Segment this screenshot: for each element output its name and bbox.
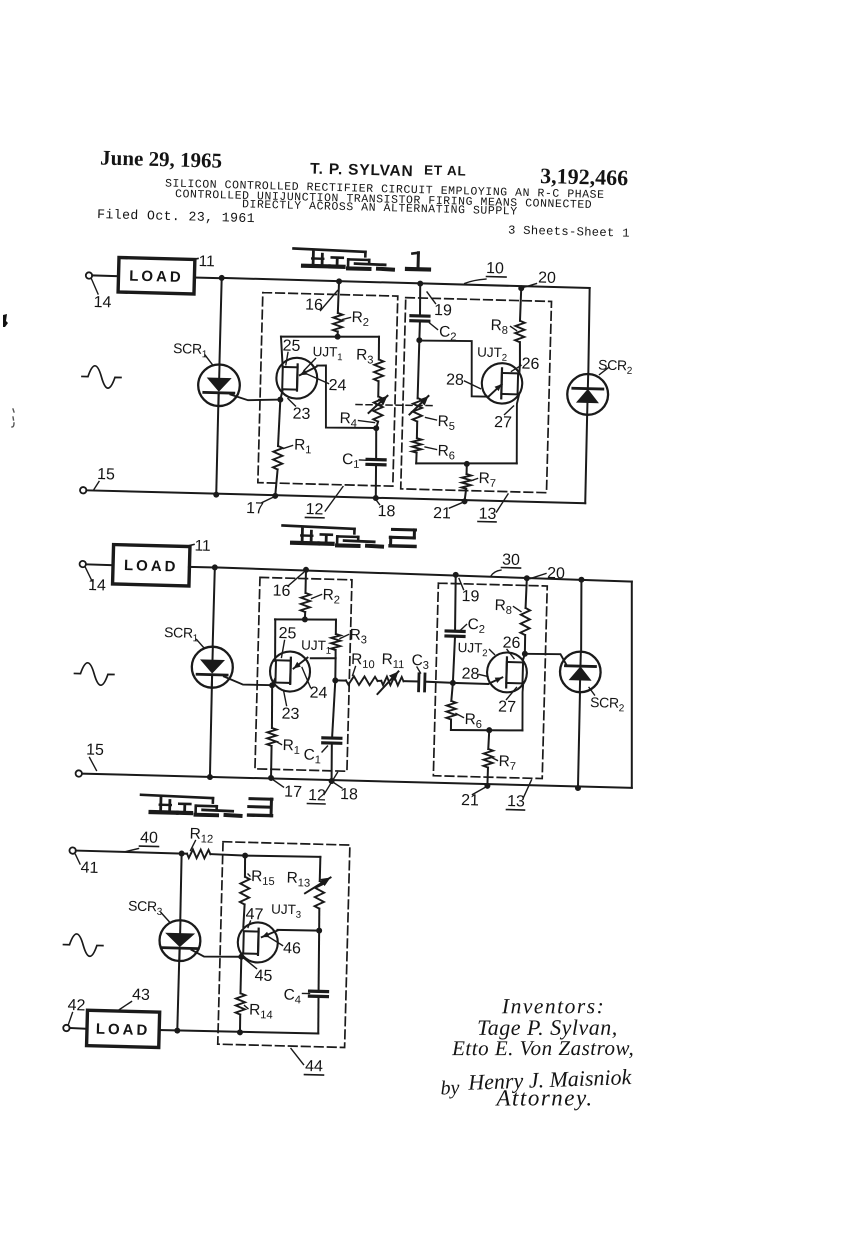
SCR SCR3 (Fig.3) xyxy=(159,920,201,962)
wire: bus to UJT1 B2 (Fig.2) xyxy=(274,619,276,660)
wire: SCR3 cathode drop (Fig.3) xyxy=(177,948,179,1030)
label SCR1 (Fig.1) xyxy=(173,340,213,364)
label R15 (Fig.3) xyxy=(248,868,280,888)
label R8 (Fig.2) xyxy=(494,597,521,617)
svg-text:11: 11 xyxy=(198,253,215,270)
potentiometer R4 (Fig.1) xyxy=(368,395,387,421)
wire: right edge drop (Fig.2) xyxy=(626,582,637,788)
wire: C3 to box13 (Fig.2) xyxy=(425,682,453,683)
header: patent number xyxy=(540,163,629,190)
wire: C2 to node P (Fig.2) xyxy=(453,637,455,682)
label 23 (Fig.1) xyxy=(287,399,311,423)
label 11 (Fig.1) xyxy=(193,253,215,271)
junction: SCR2 top node (Fig.2) xyxy=(578,577,584,583)
figure title FIG.3 xyxy=(141,795,272,817)
svg-text:R3: R3 xyxy=(349,626,371,646)
SCR SCR1 (Fig.1) xyxy=(198,364,241,407)
header: filing date xyxy=(97,207,255,226)
label SCR2 (Fig.1) xyxy=(598,356,636,376)
label 12 (Fig.1) xyxy=(305,486,343,519)
resistor R2 (Fig.2) xyxy=(301,593,311,612)
svg-text:18: 18 xyxy=(377,503,395,520)
junction: SCR2 at bottom bus (Fig.2) xyxy=(575,785,581,791)
margin mark xyxy=(3,314,9,327)
label UJT2 (Fig.1) xyxy=(477,345,511,364)
junction: SCR3 at bottom bus (Fig.3) xyxy=(174,1028,180,1034)
wire: R5 to R6 (Fig.1) xyxy=(416,421,419,438)
resistor R8 (Fig.2) xyxy=(520,608,530,635)
label 27 (Fig.2) xyxy=(498,687,517,716)
junction: SCR1 at bottom bus (Fig.2) xyxy=(207,774,213,780)
label 30 (Fig.2) xyxy=(491,551,521,576)
resistor R7 (Fig.1) xyxy=(462,474,472,489)
wire: SCR1 cathode drop (Fig.2) xyxy=(209,674,212,777)
svg-text:12: 12 xyxy=(308,787,326,804)
svg-text:25: 25 xyxy=(278,625,296,642)
wire: SCR3 gate (Fig.3) xyxy=(191,950,241,958)
wire: R8 bottom segment (Fig.1) xyxy=(519,342,520,364)
wire: R3 drop (Fig.2) xyxy=(335,620,338,634)
svg-text:LOAD: LOAD xyxy=(96,1021,151,1039)
wire: UJT2 B2 to R8 (Fig.1) xyxy=(518,364,521,373)
svg-text:15: 15 xyxy=(97,466,115,483)
header: title line 1 xyxy=(165,177,605,202)
terminal 15 (Fig.2) xyxy=(75,770,82,777)
svg-text:19: 19 xyxy=(461,588,479,605)
wire: R14 to bottom bus (Fig.3) xyxy=(239,1015,242,1033)
label 17 (Fig.1) xyxy=(246,497,273,518)
wire: node F to UJT2 emitter (Fig.1) xyxy=(418,340,490,397)
resistor R2 (Fig.1) xyxy=(333,313,343,332)
svg-text:R2: R2 xyxy=(322,587,344,607)
header: sheet number xyxy=(508,223,630,240)
resistor R8 (Fig.1) xyxy=(515,321,525,343)
resistor R1 (Fig.2) xyxy=(267,728,277,746)
load LOAD (Fig.2) xyxy=(113,545,190,586)
svg-text:by: by xyxy=(440,1077,460,1100)
capacitor C3 (Fig.2) xyxy=(419,674,425,691)
svg-text:R2: R2 xyxy=(351,309,373,329)
label 24 (Fig.1) xyxy=(305,374,347,395)
svg-text:C4: C4 xyxy=(283,986,305,1006)
svg-text:R1: R1 xyxy=(294,436,316,456)
label 42 (Fig.3) xyxy=(67,997,86,1024)
resistor R6 (Fig.1) xyxy=(412,438,422,453)
label R7 (Fig.1) xyxy=(471,470,500,490)
wire: C1 to bottom bus (Fig.2) xyxy=(331,744,333,781)
junction: gate node (Fig.3) xyxy=(238,954,244,960)
wire: UJT1 emitter line (Fig.2) xyxy=(311,658,336,659)
junction node A (Fig.2) xyxy=(212,564,218,570)
label 19 (Fig.2) xyxy=(458,579,480,606)
svg-text:UJT3: UJT3 xyxy=(271,902,305,921)
label R4 (Fig.1) xyxy=(339,410,374,430)
junction 18 (Fig.2) xyxy=(328,778,334,784)
svg-text:SCR1: SCR1 xyxy=(164,624,202,644)
capacitor C1 (Fig.1) xyxy=(367,459,385,464)
label 41 (Fig.3) xyxy=(75,854,99,877)
svg-text:Henry J. Maisniok: Henry J. Maisniok xyxy=(467,1064,633,1095)
svg-text:R13: R13 xyxy=(286,870,314,890)
wire: LOAD to node A (Fig.1) xyxy=(194,276,222,279)
junction 18 on bottom bus (Fig.1) xyxy=(373,495,379,501)
header: title line 2 xyxy=(175,188,592,212)
svg-text:27: 27 xyxy=(498,698,516,715)
label 44 (Fig.3) xyxy=(290,1048,324,1075)
label R12 (Fig.3) xyxy=(189,826,218,852)
svg-text:47: 47 xyxy=(245,906,263,923)
wire: SCR1 cathode to bottom bus (Fig.1) xyxy=(216,393,219,495)
svg-text:T. P. SYLVAN: T. P. SYLVAN xyxy=(310,160,414,180)
junction node 20 (Fig.2) xyxy=(524,575,530,581)
wire: UJT1 emitter path (Fig.1) xyxy=(316,365,378,429)
label R1 (Fig.2) xyxy=(276,737,305,757)
junction node E (Fig.2) xyxy=(332,677,338,683)
label C4 (Fig.3) xyxy=(283,986,309,1006)
label 15 (Fig.2) xyxy=(86,742,105,771)
wire: inner bottom bus box13 (Fig.1) xyxy=(416,461,517,466)
wire: terminal 14 to LOAD (Fig.1) xyxy=(92,274,119,277)
label 28 (Fig.2) xyxy=(461,666,488,684)
wire: SCR1 gate (Fig.2) xyxy=(224,676,272,685)
wire: node19 to C2 (Fig.2) xyxy=(454,575,456,631)
label SCR2 (Fig.2) xyxy=(588,687,628,714)
svg-text:June 29, 1965: June 29, 1965 xyxy=(100,145,223,172)
wire: UJT1 B1 to node 23 (Fig.1) xyxy=(280,390,282,400)
label 43 (Fig.3) xyxy=(120,986,151,1010)
label 17 (Fig.2) xyxy=(273,780,302,801)
resistor R6 (Fig.2) xyxy=(446,701,456,720)
label 16 (Fig.1) xyxy=(305,290,338,315)
label R3 (Fig.2) xyxy=(340,626,372,646)
pin: UJT2 emitter arrow (Fig.2) xyxy=(488,677,502,684)
resistor R10 (Fig.2) xyxy=(346,676,378,685)
svg-text:27: 27 xyxy=(494,414,512,431)
wire: inner bus to R3 (Fig.1) xyxy=(377,337,380,360)
svg-text:LOAD: LOAD xyxy=(129,268,184,286)
label R6 (Fig.1) xyxy=(425,442,460,462)
wire: R13 stub (Fig.3) xyxy=(319,857,322,881)
wire: bottom bus Fig.1 xyxy=(86,490,585,503)
label R7 (Fig.2) xyxy=(492,753,520,773)
wire: R7 stub (Fig.2) xyxy=(487,730,490,749)
figure title FIG.2 xyxy=(282,525,415,547)
junction: gate node at R1 top (Fig.1) xyxy=(277,396,283,402)
label R8 (Fig.1) xyxy=(490,317,517,337)
wire: UJT2 B2 to node 26 (Fig.2) xyxy=(523,654,525,660)
wire: node to R1 (Fig.2) xyxy=(271,685,273,728)
load LOAD (Fig.3) xyxy=(87,1010,160,1047)
label 25 (Fig.1) xyxy=(282,338,301,366)
label R5 (Fig.1) xyxy=(425,413,459,433)
wire: LOAD to bottom bus (Fig.3) xyxy=(159,1029,319,1034)
signature block xyxy=(439,989,637,1115)
wire: UJT1 B1 drop (Fig.2) xyxy=(272,679,275,685)
svg-text:SCR1: SCR1 xyxy=(173,340,211,360)
terminal 42 (Fig.3) xyxy=(63,1025,70,1032)
svg-text:20: 20 xyxy=(547,565,565,582)
label 13 (Fig.2) xyxy=(506,779,531,810)
wire: R7 to bottom bus (Fig.2) xyxy=(486,768,489,786)
wire: R7 top (Fig.1) xyxy=(466,464,468,474)
junction: gate node (Fig.2) xyxy=(269,682,275,688)
label C1 (Fig.1) xyxy=(342,451,367,471)
label UJT1 (Fig.1) xyxy=(304,344,347,372)
junction node 19 (Fig.2) xyxy=(453,572,459,578)
junction 17 on bottom bus (Fig.1) xyxy=(272,493,278,499)
label R3 (Fig.1) xyxy=(356,347,378,367)
wire: top bus Fig.2 xyxy=(215,567,632,581)
wire: R1 to bottom bus (Fig.2) xyxy=(271,746,272,778)
terminal 15 (Fig.1) xyxy=(80,487,87,494)
junction node 16 (Fig.1) xyxy=(336,278,342,284)
label R11 (Fig.2) xyxy=(381,651,409,671)
wire: C2 to node F (Fig.1) xyxy=(418,322,421,340)
wire: R8 top to top bus (Fig.1) xyxy=(520,288,521,321)
resistor R15 (Fig.3) xyxy=(240,877,250,905)
svg-text:21: 21 xyxy=(433,505,451,522)
dashed enclosure 13 (Fig.1) xyxy=(401,298,552,493)
wire: emitter node drop (Fig.2) xyxy=(334,658,337,680)
svg-text:SCR3: SCR3 xyxy=(128,897,166,917)
label 18 (Fig.2) xyxy=(333,782,358,803)
label C1 (Fig.2) xyxy=(303,745,327,766)
svg-text:41: 41 xyxy=(80,860,98,877)
wire: node P to UJT2 emitter (Fig.2) xyxy=(453,683,488,684)
svg-text:25: 25 xyxy=(282,338,300,355)
junction: R2 at inner bus (Fig.1) xyxy=(335,334,341,340)
header: title line 3 xyxy=(242,198,518,218)
wire: R6 to inner bus (Fig.1) xyxy=(415,453,417,464)
label UJT2 (Fig.2) xyxy=(457,640,495,659)
label 11 (Fig.2) xyxy=(189,537,211,555)
label 21 (Fig.2) xyxy=(461,787,485,810)
svg-text:ET AL: ET AL xyxy=(424,162,467,178)
resistor R7 (Fig.2) xyxy=(483,749,493,768)
header: inventor names xyxy=(310,159,467,181)
wire: UJT1 inner top bus (Fig.1) xyxy=(281,334,379,339)
margin mark 2 xyxy=(12,409,15,427)
label 26 (Fig.2) xyxy=(502,634,521,658)
svg-text:R7: R7 xyxy=(498,753,520,773)
unijunction transistor UJT3 (Fig.3) xyxy=(237,922,278,963)
wire: node19 to C2 (Fig.1) xyxy=(419,284,420,315)
label 12 (Fig.2) xyxy=(307,772,337,805)
junction node F C2 bottom (Fig.1) xyxy=(416,337,422,343)
svg-text:C2: C2 xyxy=(467,616,489,636)
wire: R10-R11 (Fig.2) xyxy=(378,680,382,682)
label C2 (Fig.1) xyxy=(429,323,461,344)
svg-text:SCR2: SCR2 xyxy=(590,694,628,714)
wire: LOAD to node A (Fig.2) xyxy=(189,566,215,569)
wire: SCR2 cathode drop (Fig.2) xyxy=(577,692,580,788)
label 40 (Fig.3) xyxy=(126,829,159,852)
junction node D (Fig.3) xyxy=(316,927,322,933)
unijunction transistor UJT1 (Fig.1) xyxy=(276,357,318,399)
resistor R3 (Fig.2) xyxy=(331,634,341,650)
svg-text:24: 24 xyxy=(309,685,327,702)
label R14 (Fig.3) xyxy=(244,1001,277,1021)
label UJT3 (Fig.3) xyxy=(271,902,305,921)
dashed enclosure 13 (Fig.2) xyxy=(433,583,547,778)
label SCR1 (Fig.2) xyxy=(164,624,205,648)
label 28 (Fig.1) xyxy=(446,372,481,390)
svg-text:R7: R7 xyxy=(478,470,500,490)
wire: node D to C4 (Fig.3) xyxy=(318,931,321,991)
svg-text:3,192,466: 3,192,466 xyxy=(540,163,629,190)
label 15 (Fig.1) xyxy=(94,466,115,490)
junction node A (Fig.3) xyxy=(179,850,185,856)
wire: node16 to R2 (Fig.2) xyxy=(304,570,307,593)
label 47 (Fig.3) xyxy=(245,906,263,928)
junction: R7 node (Fig.2) xyxy=(486,727,492,733)
wire: node P to R6 (Fig.2) xyxy=(451,683,453,701)
label 24 (Fig.2) xyxy=(301,668,328,702)
label R2 (Fig.2) xyxy=(311,586,344,606)
wire: top bus right drop to SCR2 (Fig.1) xyxy=(587,288,590,374)
pin: UJT1 emitter arrow (Fig.2) xyxy=(294,657,308,669)
label 13 (Fig.1) xyxy=(478,493,508,523)
junction: R14 at bottom bus (Fig.3) xyxy=(237,1029,243,1035)
junction: R8/gate node (Fig.2) xyxy=(522,651,528,657)
unijunction transistor UJT2 (Fig.1) xyxy=(481,363,522,404)
unijunction transistor UJT2 (Fig.2) xyxy=(487,652,528,693)
svg-text:R11: R11 xyxy=(381,651,409,671)
wire: UJT2 B1 drop (Fig.2) xyxy=(522,686,524,731)
svg-text:42: 42 xyxy=(67,997,85,1014)
junction node 19 (Fig.1) xyxy=(417,281,423,287)
wire: R2 to inner bus (Fig.1) xyxy=(337,331,339,336)
figure title FIG.1 xyxy=(293,248,429,270)
dashed enclosure 12 (Fig.2) xyxy=(255,577,352,771)
svg-text:40: 40 xyxy=(140,829,158,846)
svg-text:17: 17 xyxy=(284,784,302,801)
svg-text:R14: R14 xyxy=(249,1001,277,1021)
wire: inner top bus (Fig.2) xyxy=(275,618,336,621)
svg-text:R5: R5 xyxy=(437,413,459,433)
wire: inner bottom bus (Fig.2) xyxy=(451,729,523,732)
svg-text:28: 28 xyxy=(446,372,464,389)
svg-text:28: 28 xyxy=(461,666,479,683)
wire: node E to C1 (Fig.2) xyxy=(332,680,335,737)
resistor R1 (Fig.1) xyxy=(273,446,283,470)
capacitor C2 (Fig.2) xyxy=(446,631,464,636)
label UJT1 (Fig.2) xyxy=(301,638,335,657)
potentiometer R13 (Fig.3) xyxy=(305,877,331,909)
svg-text:11: 11 xyxy=(194,537,211,554)
pin: UJT3 emitter arrow (Fig.3) xyxy=(262,930,278,938)
svg-text:15: 15 xyxy=(86,742,104,759)
svg-text:R15: R15 xyxy=(251,868,279,888)
wire: node to R1 (Fig.1) xyxy=(278,400,280,447)
svg-text:23: 23 xyxy=(281,706,299,723)
junction 17 (Fig.2) xyxy=(268,775,274,781)
svg-text:14: 14 xyxy=(93,294,111,311)
AC source sine (Fig.2) xyxy=(74,662,114,685)
svg-text:R6: R6 xyxy=(464,711,486,731)
wire: R13 to node D (Fig.3) xyxy=(318,909,321,931)
resistor R3 (Fig.1) xyxy=(374,359,384,381)
junction 21 (Fig.2) xyxy=(484,783,490,789)
dashed enclosure 44 (Fig.3) xyxy=(218,842,350,1048)
label 14 (Fig.2) xyxy=(85,568,107,595)
svg-text:Filed Oct. 23, 1961: Filed Oct. 23, 1961 xyxy=(97,207,255,226)
wire: SCR1 anode drop (Fig.1) xyxy=(219,278,221,365)
wire: terminal 41 to node A (Fig.3) xyxy=(76,851,182,854)
resistor R14 (Fig.3) xyxy=(236,993,246,1014)
svg-text:23: 23 xyxy=(292,406,310,423)
svg-text:19: 19 xyxy=(434,302,452,319)
wire: SCR3 anode drop (Fig.3) xyxy=(180,854,182,921)
label 21 (Fig.1) xyxy=(433,502,462,523)
SCR SCR2 (Fig.1) xyxy=(567,373,609,415)
label 10 (Fig.1) xyxy=(465,259,507,284)
wire: gate line to SCR2 (Fig.2) xyxy=(525,653,568,666)
pin: UJT1 emitter arrow (Fig.1) xyxy=(300,366,317,375)
svg-text:45: 45 xyxy=(254,968,272,985)
junction: R4/C1/emitter node 18 top (Fig.1) xyxy=(373,425,379,431)
junction node P (Fig.2) xyxy=(450,680,456,686)
wire: terminal to LOAD (Fig.2) xyxy=(86,563,114,566)
svg-text:18: 18 xyxy=(340,786,358,803)
svg-text:LOAD: LOAD xyxy=(124,557,179,575)
svg-text:SCR2: SCR2 xyxy=(598,356,636,376)
wire: gate node to R14 (Fig.3) xyxy=(240,957,241,994)
label 19 (Fig.1) xyxy=(426,292,452,319)
wire: C1 to bottom bus (Fig.1) xyxy=(375,466,376,498)
label 14 (Fig.1) xyxy=(91,279,112,311)
wire: UJT2 B1 drop (Fig.1) xyxy=(515,394,519,464)
mechanical link R4-R5 dashed (Fig.1) xyxy=(356,404,432,407)
potentiometer R5 (Fig.1) xyxy=(409,395,428,421)
svg-text:30: 30 xyxy=(502,552,520,569)
label 46 (Fig.3) xyxy=(266,935,301,957)
label 23 (Fig.2) xyxy=(281,690,300,723)
load LOAD (Fig.1) xyxy=(118,258,195,294)
junction: R7 top node (Fig.1) xyxy=(464,461,470,467)
svg-text:10: 10 xyxy=(486,260,504,277)
dashed enclosure 12 (Fig.1) xyxy=(258,293,398,487)
svg-text:UJT2: UJT2 xyxy=(477,345,511,364)
label R1 (Fig.1) xyxy=(283,436,316,456)
label C2 (Fig.2) xyxy=(459,616,489,636)
wire: R6 to inner bus (Fig.2) xyxy=(450,719,452,730)
terminal 14 (Fig.1) xyxy=(86,272,93,279)
label 25 (Fig.2) xyxy=(278,625,297,658)
label 26 (Fig.1) xyxy=(511,355,539,373)
junction: R2 inner bus (Fig.2) xyxy=(302,616,308,622)
wire: R3 to emitter line (Fig.2) xyxy=(334,650,336,658)
svg-text:R6: R6 xyxy=(437,443,459,463)
svg-text:3 Sheets-Sheet 1: 3 Sheets-Sheet 1 xyxy=(508,223,630,240)
capacitor C1 (Fig.2) xyxy=(323,738,341,743)
svg-text:UJT1: UJT1 xyxy=(301,638,335,657)
wire: R2 to inner bus (Fig.2) xyxy=(304,612,306,619)
label R10 (Fig.2) xyxy=(351,651,380,676)
svg-text:Etto E. Von Zastrow,: Etto E. Von Zastrow, xyxy=(451,1036,634,1060)
wire: R12 to node B (Fig.3) xyxy=(210,854,245,856)
svg-text:20: 20 xyxy=(538,269,556,286)
svg-text:26: 26 xyxy=(502,634,520,651)
terminal 14 (Fig.2) xyxy=(79,561,86,568)
wire: SCR2 to bottom bus (Fig.1) xyxy=(585,415,588,504)
wire: top bus Fig.1 xyxy=(222,278,590,288)
junction 21 on bottom bus (Fig.1) xyxy=(461,498,467,504)
wire: bottom bus Fig.2 xyxy=(82,773,632,788)
terminal 41 (Fig.3) xyxy=(69,847,76,854)
wire: node F to R5 (Fig.1) xyxy=(418,340,420,398)
wire: node16 to R2 (Fig.1) xyxy=(338,281,339,313)
